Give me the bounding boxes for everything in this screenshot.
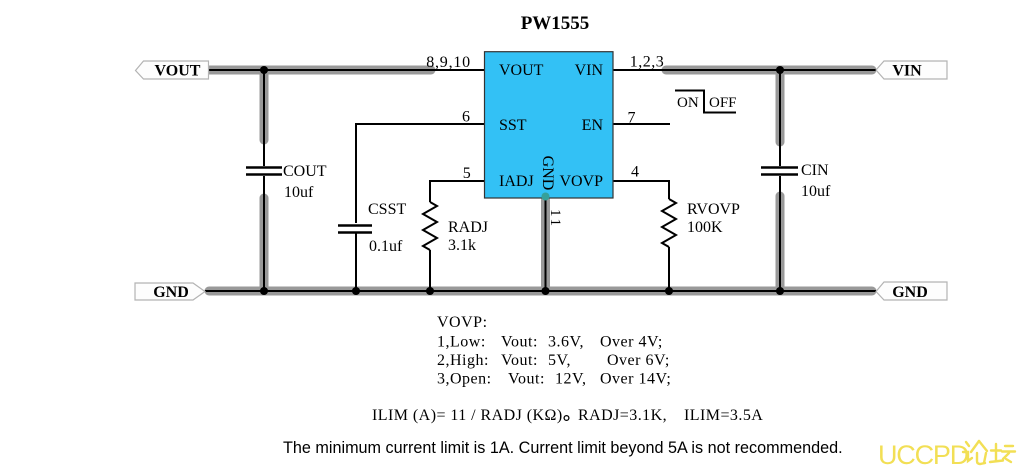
svg-text:GND: GND — [892, 284, 928, 301]
port flag VIN — [876, 61, 947, 80]
wire CSST to GND rail — [355, 233, 357, 291]
junction RVOVP at rail — [665, 287, 673, 295]
pin numbers 8,9,10 — [426, 54, 471, 71]
junction RADJ at rail — [426, 287, 434, 295]
svg-text:RVOVP: RVOVP — [687, 201, 740, 218]
svg-text:5: 5 — [463, 165, 471, 182]
svg-text:1,2,3: 1,2,3 — [630, 54, 665, 71]
port flag VOUT — [136, 61, 209, 80]
junction CSST at rail — [352, 287, 360, 295]
net VIN highlight (thick gray) — [666, 70, 872, 287]
svg-text:The minimum current limit is 1: The minimum current limit is 1A. Current… — [283, 439, 843, 457]
capacitor CIN — [761, 168, 798, 175]
svg-text:VOUT: VOUT — [155, 63, 201, 80]
IC U1 PW1555 body — [485, 52, 614, 198]
pin number 5 — [463, 165, 471, 182]
wire IADJ pin to RADJ — [430, 181, 484, 202]
wire VIN node down to CIN — [779, 70, 781, 166]
wire VOUT node down to COUT — [263, 70, 265, 166]
svg-text:CIN: CIN — [801, 162, 829, 179]
svg-text:1,Low:Vout:3.6V,Over 4V;: 1,Low:Vout:3.6V,Over 4V; — [437, 334, 663, 351]
svg-text:VIN: VIN — [575, 62, 604, 79]
svg-text:11: 11 — [547, 209, 563, 228]
svg-text:GND: GND — [539, 156, 556, 191]
junction COUT at rail — [260, 287, 268, 295]
wire GND rail — [205, 290, 876, 292]
capacitor COUT — [246, 168, 282, 175]
port flag GND right — [876, 282, 947, 301]
resistor RVOVP — [662, 199, 676, 247]
label CSST 0.1uf — [368, 201, 406, 255]
wire VOVP pin to RVOVP — [613, 181, 669, 199]
svg-text:SST: SST — [499, 117, 527, 134]
svg-text:RADJ: RADJ — [448, 219, 488, 236]
svg-text:PW1555: PW1555 — [521, 13, 590, 34]
wire CIN to GND rail — [779, 176, 781, 291]
label RVOVP 100K — [687, 201, 740, 236]
note VOVP table — [437, 314, 671, 388]
watermark glyph lun — [963, 441, 987, 464]
wire COUT to GND rail — [263, 176, 265, 291]
watermark glyph tan — [990, 444, 1015, 462]
title PW1555 — [521, 13, 590, 34]
capacitor CSST — [338, 226, 372, 233]
label ON — [677, 95, 699, 111]
svg-text:10uf: 10uf — [284, 184, 314, 201]
wire RVOVP to GND rail — [668, 247, 670, 291]
svg-text:3.1k: 3.1k — [448, 237, 476, 254]
resistor RADJ — [423, 202, 437, 250]
IC pin label GND (rotated) — [539, 156, 556, 191]
svg-text:6: 6 — [462, 109, 470, 126]
wire IC GND pin 11 down — [545, 198, 547, 291]
svg-text:4: 4 — [631, 164, 639, 181]
wire VIN pin to flag — [613, 69, 876, 71]
svg-text:ON: ON — [677, 95, 699, 111]
svg-text:VOVP: VOVP — [559, 173, 603, 190]
label CIN 10uf — [801, 162, 831, 200]
port flag GND left — [135, 283, 205, 301]
svg-text:VIN: VIN — [892, 63, 922, 80]
watermark UCCPD — [878, 440, 969, 467]
svg-text:8,9,10: 8,9,10 — [426, 54, 471, 71]
svg-text:2,High:Vout:5V,Over 6V;: 2,High:Vout:5V,Over 6V; — [437, 352, 670, 369]
svg-text:GND: GND — [153, 284, 189, 301]
svg-text:IADJ: IADJ — [499, 173, 534, 190]
svg-text:3,Open:Vout:12V,Over 14V;: 3,Open:Vout:12V,Over 14V; — [437, 371, 671, 388]
wire VOUT pin to flag — [209, 69, 484, 71]
svg-text:VOUT: VOUT — [499, 62, 544, 79]
pin number 7 — [628, 110, 636, 127]
label OFF — [709, 95, 737, 111]
svg-text:COUT: COUT — [283, 163, 327, 180]
junction IC GND at rail — [542, 287, 550, 295]
junction at VOUT/COUT node — [260, 66, 268, 74]
svg-text:0.1uf: 0.1uf — [369, 238, 403, 255]
wire EN pin stub — [613, 123, 670, 125]
pin number 11 (rotated) — [547, 209, 563, 228]
note current limit (sans) — [283, 439, 843, 457]
net VOUT highlight (thick gray) — [209, 70, 431, 287]
wire SST pin to CSST — [356, 124, 484, 223]
svg-text:EN: EN — [582, 117, 604, 134]
wire RADJ to GND rail — [429, 250, 431, 291]
svg-text:7: 7 — [628, 110, 636, 127]
svg-text:OFF: OFF — [709, 95, 737, 111]
net GND highlight (thick gray rail) — [209, 200, 872, 291]
svg-text:100K: 100K — [687, 219, 723, 236]
junction CIN at rail — [776, 287, 784, 295]
pin number 6 — [462, 109, 470, 126]
IC GND pad dot — [542, 193, 550, 201]
junction at VIN/CIN node — [776, 66, 784, 74]
pin number 4 — [631, 164, 639, 181]
svg-text:CSST: CSST — [368, 201, 406, 218]
note ILIM formula — [372, 407, 763, 424]
svg-text:10uf: 10uf — [801, 183, 831, 200]
svg-text:UCCPD: UCCPD — [878, 440, 969, 467]
switch ON/OFF symbol — [675, 90, 736, 113]
svg-text:VOVP:: VOVP: — [437, 314, 488, 331]
pin numbers 1,2,3 — [630, 54, 665, 71]
label RADJ 3.1k — [448, 219, 488, 254]
label COUT 10uf — [283, 163, 327, 201]
